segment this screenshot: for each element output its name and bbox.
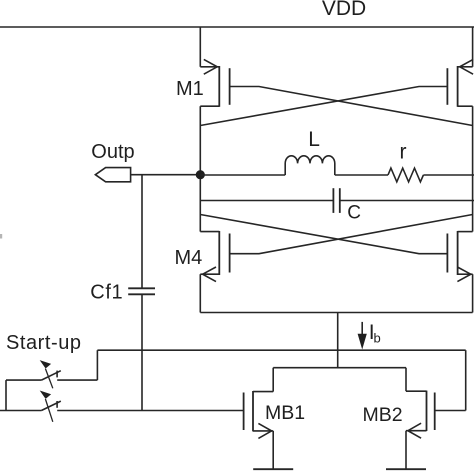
svg-text:Cf1: Cf1 bbox=[90, 282, 123, 304]
svg-text:L: L bbox=[308, 128, 320, 151]
wire MB drain rail bbox=[273, 367, 406, 369]
capacitor C bbox=[333, 188, 339, 213]
cropped label fragment at left edge bbox=[0, 234, 2, 239]
ground MB1 bbox=[253, 468, 293, 470]
svg-text:M4: M4 bbox=[175, 247, 203, 269]
wire Outp node to Cf1 bbox=[141, 175, 143, 289]
wire start-up upper row right bbox=[57, 379, 97, 381]
current arrow Ib bbox=[358, 322, 367, 350]
svg-text:r: r bbox=[400, 140, 407, 163]
wire node to capacitor C bbox=[200, 200, 333, 202]
transistor M2 bbox=[447, 59, 473, 106]
switch S2 bbox=[40, 391, 61, 422]
port Outp pin bbox=[95, 168, 130, 182]
svg-text:Start-up: Start-up bbox=[6, 332, 82, 354]
svg-text:M1: M1 bbox=[176, 78, 204, 100]
transistor M4 bbox=[200, 231, 229, 282]
transistor MB1 bbox=[244, 368, 274, 470]
wire start-up lower row to MB1 gate bbox=[57, 410, 243, 412]
transistor M3 bbox=[447, 231, 472, 282]
svg-text:MB2: MB2 bbox=[363, 404, 403, 426]
svg-text:b: b bbox=[374, 331, 381, 346]
wire Cf1 down to start-up row bbox=[141, 294, 143, 410]
svg-text:C: C bbox=[347, 203, 361, 224]
wire cross-coupling M2 gate to M1 drain bbox=[200, 87, 447, 126]
wire M2 source vertical bbox=[472, 27, 474, 67]
wire bias gate rail bbox=[97, 349, 465, 351]
wire tail rail bbox=[200, 312, 472, 314]
wire cross-coupling M3 gate to M4 drain bbox=[200, 215, 447, 254]
wire Outp to node bbox=[131, 174, 201, 176]
capacitor Cf1 bbox=[128, 288, 155, 294]
wire M3 source vertical bbox=[472, 274, 474, 312]
wire M1 drain vertical to Outp node and M4 bbox=[199, 106, 201, 231]
svg-text:Outp: Outp bbox=[91, 141, 134, 163]
wire M1 source vertical bbox=[199, 27, 201, 67]
wire MB2 gate riser bbox=[465, 350, 467, 410]
wire start-up upper row left bbox=[6, 379, 41, 381]
wire node to inductor bbox=[200, 174, 285, 176]
transistor MB2 bbox=[406, 368, 435, 470]
wire start-up lower row left bbox=[0, 410, 41, 412]
wire M4 source vertical bbox=[199, 274, 201, 312]
wire cross-coupling M4 gate to M3 drain bbox=[230, 215, 473, 254]
wire capacitor to right edge bbox=[340, 200, 474, 202]
transistor M1 bbox=[200, 59, 229, 106]
resistor r bbox=[388, 168, 423, 182]
wire MB2 gate bbox=[435, 410, 466, 412]
wire start-up riser bbox=[96, 350, 98, 380]
wire M2 drain vertical down to M3 bbox=[472, 106, 474, 231]
svg-text:VDD: VDD bbox=[322, 0, 366, 20]
ground MB2 bbox=[386, 468, 426, 470]
wire cross-coupling M1 gate to M2 drain bbox=[230, 87, 473, 126]
switch S1 bbox=[40, 360, 61, 388]
node Outp junction dot bbox=[196, 170, 205, 179]
svg-text:MB1: MB1 bbox=[265, 402, 305, 424]
wire VDD rail bbox=[0, 26, 474, 28]
wire start-up left vertical bbox=[5, 380, 7, 410]
wire tail down to bias mirror bbox=[337, 313, 339, 368]
label Ib bbox=[369, 321, 381, 346]
wire inductor to resistor bbox=[335, 174, 388, 176]
inductor L bbox=[285, 156, 335, 175]
wire resistor to right edge bbox=[423, 174, 474, 176]
